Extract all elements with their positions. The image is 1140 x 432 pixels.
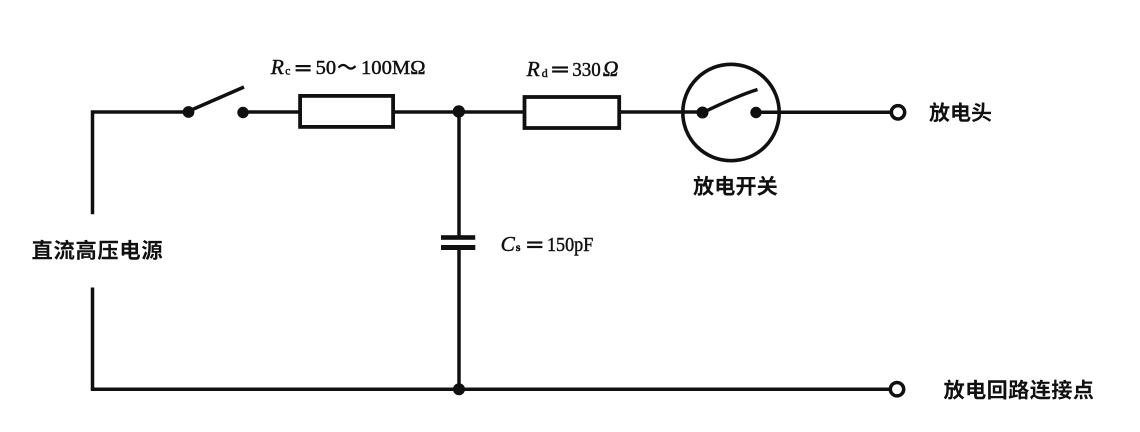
switch S1 right contact dot	[237, 107, 248, 118]
switch S1 lever	[189, 87, 244, 111]
wire: Rd to discharge switch left contact	[619, 110, 702, 114]
svg-text:R: R	[270, 55, 284, 79]
svg-text:s: s	[516, 240, 521, 254]
wire: Rc to Rd through node A	[394, 110, 525, 114]
node B junction dot on bottom wire	[453, 383, 465, 395]
wire: capacitor bottom plate down to bottom wire	[457, 249, 461, 389]
label: discharge head (放电头)	[929, 102, 991, 122]
terminal ring: discharge head	[891, 106, 904, 119]
label: Cs = 150 pF	[501, 232, 594, 256]
resistor Rc body	[300, 96, 393, 127]
label: discharge loop connection point (放电回路连接点)	[944, 380, 1094, 400]
terminal ring: discharge loop connection point	[890, 383, 903, 396]
resistor Rd body	[525, 97, 620, 128]
discharge switch circle	[683, 64, 779, 160]
capacitor Cs bottom plate	[441, 245, 475, 250]
svg-text:Ω: Ω	[603, 57, 619, 81]
discharge switch right contact dot	[750, 107, 761, 118]
discharge switch lever	[703, 90, 758, 113]
switch S1 left contact dot	[183, 106, 195, 118]
wire: node A vertical down to capacitor top plate	[457, 112, 461, 236]
svg-text:50: 50	[316, 57, 337, 79]
svg-text:C: C	[501, 232, 516, 256]
wire: switch right contact to resistor Rc	[243, 110, 301, 114]
label: DC high-voltage source (直流高压电源)	[32, 240, 162, 260]
svg-text:100MΩ: 100MΩ	[361, 57, 426, 79]
wire: left vertical lower segment	[91, 288, 95, 390]
capacitor Cs top plate	[441, 235, 475, 240]
wire: left vertical upper segment with top corner	[93, 112, 189, 214]
svg-text:330: 330	[572, 59, 601, 81]
label: Rc = 50~100 Mohm	[270, 55, 426, 79]
svg-text:d: d	[542, 66, 548, 80]
label: Rd = 330 ohm	[526, 57, 619, 81]
svg-text:150pF: 150pF	[547, 234, 593, 256]
wire: bottom return wire	[91, 387, 889, 391]
wire: discharge switch right contact to discharge-head terminal	[756, 111, 890, 115]
svg-text:c: c	[285, 66, 290, 78]
node A junction dot	[453, 105, 465, 117]
discharge switch left contact dot	[697, 107, 709, 119]
svg-text:R: R	[526, 57, 540, 81]
label: discharge switch (放电开关)	[693, 176, 777, 196]
